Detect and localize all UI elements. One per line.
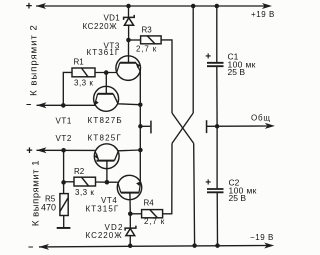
arrowhead left rect2 minus [37, 102, 47, 108]
svg-text:R3: R3 [142, 25, 153, 34]
wire VT4 base lead [129, 193, 131, 214]
svg-text:3,3 к: 3,3 к [74, 79, 93, 88]
arrowhead right -19V [264, 243, 274, 249]
node VT2 collector / bus [138, 148, 143, 153]
svg-text:+: + [205, 177, 211, 188]
output terminal bar right [206, 120, 208, 133]
svg-text:25 В: 25 В [229, 193, 247, 203]
svg-text:2,7 к: 2,7 к [144, 217, 165, 226]
wire R2 right lead to VT2 base node [96, 181, 107, 183]
svg-text:VT2: VT2 [56, 134, 72, 143]
svg-text:КТ315Г: КТ315Г [86, 204, 120, 213]
arrowhead right +19V [262, 3, 272, 9]
node bottom rail / VD2 [128, 244, 133, 249]
wire output tap left stub [140, 125, 150, 127]
wire VT2 collector to bus [114, 150, 140, 161]
transistor VT4 [117, 175, 141, 199]
svg-text:R4: R4 [144, 199, 155, 208]
wire VD1 top lead [128, 6, 130, 17]
wire VT4 collector lead [107, 181, 118, 183]
wire R3 right lead with bend down [161, 40, 172, 113]
node R2 lead / R5 [61, 180, 66, 185]
arrowhead left rect1 plus [37, 147, 47, 153]
transistor VT2 [94, 144, 119, 169]
wire R2 vertical feed from plus lead [63, 150, 65, 193]
svg-text:КТ827Б: КТ827Б [88, 116, 123, 125]
node top rail / C1 [215, 4, 220, 9]
svg-text:+19 В: +19 В [251, 10, 275, 19]
node top rail / crossing wire [191, 4, 196, 9]
zener diode VD2 [125, 226, 136, 236]
wire R3 left lead [129, 39, 141, 41]
svg-text:−19 В: −19 В [250, 233, 274, 242]
svg-text:КС220Ж: КС220Ж [83, 22, 118, 31]
wire top +19V rail [36, 5, 266, 7]
node R1 VT1 base [104, 70, 109, 75]
svg-text:К выпрямит 2: К выпрямит 2 [29, 24, 40, 96]
ground bar below R5 [57, 227, 71, 229]
svg-text:R2: R2 [74, 167, 85, 176]
wire crossing diagonal right-to-left [172, 113, 193, 143]
capacitor C1 [207, 63, 224, 66]
transistor VT3 [116, 56, 141, 81]
svg-text:+: + [26, 1, 32, 13]
svg-text:2,7 к: 2,7 к [136, 45, 157, 54]
wire crossing down to bottom rail [193, 143, 196, 245]
wire VT1 base lead [105, 73, 107, 94]
svg-text:КТ361Г: КТ361Г [87, 48, 121, 57]
node R1 lead / minus wire [61, 103, 66, 108]
wire rectifier2 minus lead [37, 104, 96, 106]
wire VD2 bottom lead [129, 236, 131, 246]
wire rectifier1 plus lead [37, 149, 95, 151]
node plus wire / R2 feed [61, 148, 66, 153]
node R2 VT2 base VT4 collector [105, 180, 110, 185]
svg-text:+: + [26, 145, 32, 157]
arrowhead left bottom [39, 244, 49, 250]
wire C2 bottom lead [216, 126, 218, 189]
wire crossing diagonal left-to-right [172, 113, 194, 143]
node common / C1 C2 [215, 124, 220, 129]
node bottom rail / crossing wire [192, 243, 197, 248]
wire from top rail down to crossing [192, 6, 194, 113]
wire C2 bottom lead to rail [216, 192, 218, 245]
wire VT3 base lead [128, 40, 130, 62]
wire VD2 top lead [129, 214, 131, 228]
svg-text:470: 470 [41, 203, 56, 213]
wire R1 right lead to VT3 collector [95, 72, 117, 74]
wire R1 left lead with bend [63, 72, 72, 105]
resistor R5 [60, 194, 68, 216]
svg-text:25 В: 25 В [228, 67, 246, 77]
wire C1 top lead [216, 6, 218, 63]
arrowhead right common [265, 123, 275, 129]
resistor R3 [141, 36, 162, 44]
svg-text:КТ825Г: КТ825Г [88, 133, 122, 142]
node output tap [138, 124, 143, 129]
svg-text:VT1: VT1 [56, 117, 72, 126]
node VT1 collector / bus [138, 102, 143, 107]
node top rail / VD1 [126, 4, 131, 9]
wire output tap right stub [207, 125, 268, 127]
zener diode VD1 [124, 15, 135, 25]
svg-text:3,3 к: 3,3 к [75, 188, 94, 197]
arrowhead left top [36, 3, 46, 9]
resistor R4 [142, 210, 163, 218]
resistor R1 [72, 68, 95, 77]
node VD1 R3 VT3 base [126, 38, 131, 43]
wire R4 left lead [130, 213, 141, 215]
svg-text:Общ: Общ [251, 114, 271, 123]
wire VT2 base lead [106, 161, 108, 183]
svg-text:+: + [205, 51, 211, 62]
wire C1 bottom lead [216, 66, 218, 126]
svg-text:−: − [28, 242, 33, 252]
wire crossing to R4 right lead [163, 143, 172, 213]
svg-text:R1: R1 [74, 58, 85, 67]
node VT4 base R4 VD2 [128, 212, 133, 217]
transistor VT1 [94, 86, 119, 111]
wire VD1 bottom lead to node [128, 25, 130, 40]
wire emitters bus vertical [139, 71, 141, 181]
wire R2 left lead [64, 181, 74, 183]
wire bottom -19V rail [39, 246, 268, 247]
wire VT1 collector to bus [113, 94, 140, 105]
capacitor C2 [207, 189, 224, 192]
svg-text:КС220Ж: КС220Ж [86, 231, 123, 240]
wire R5 bottom lead [63, 216, 65, 228]
svg-text:−: − [26, 100, 31, 110]
output terminal bar left [150, 121, 152, 134]
resistor R2 [74, 177, 96, 186]
node bottom rail / C2 [215, 243, 220, 248]
svg-text:К выпрямит 1: К выпрямит 1 [31, 160, 42, 226]
